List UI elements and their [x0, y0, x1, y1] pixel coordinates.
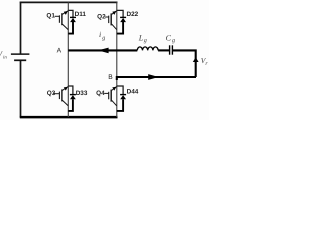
- wire top rail: [20, 1, 118, 3]
- wire inductor to capacitor: [158, 49, 169, 51]
- svg-text:Q1: Q1: [46, 13, 55, 20]
- label Q3: [47, 90, 56, 97]
- label Q2: [97, 13, 106, 20]
- current arrow ig (pointing left): [98, 48, 109, 54]
- svg-text:g: g: [144, 38, 147, 44]
- node A: [57, 47, 62, 54]
- svg-text:Q2: Q2: [97, 13, 106, 20]
- label Cg: [166, 33, 175, 44]
- wire Q2 diode branch tie top: [117, 10, 123, 17]
- inductor Lg: [137, 47, 158, 51]
- wire Q3 diode branch tie top: [68, 86, 73, 94]
- diode D33: [70, 95, 76, 100]
- label Vin: [0, 49, 7, 61]
- label ig: [99, 30, 105, 42]
- svg-text:Q4: Q4: [96, 90, 105, 97]
- wire right bridge leg: [116, 2, 118, 117]
- label D11: [75, 11, 87, 18]
- wire left rail lower: [20, 60, 22, 117]
- svg-text:D22: D22: [127, 11, 139, 18]
- label D22: [127, 11, 139, 18]
- label D44: [127, 89, 139, 96]
- wire Q1 diode branch tie top: [68, 10, 73, 17]
- svg-text:D44: D44: [127, 89, 139, 96]
- wire Q2 diode branch tie bottom: [117, 22, 123, 34]
- svg-text:g: g: [102, 36, 105, 42]
- diode D11: [70, 17, 76, 22]
- svg-text:g: g: [172, 38, 175, 44]
- current arrow on B wire (pointing right): [148, 74, 158, 80]
- transistor Q3 (IGBT): [53, 87, 68, 106]
- capacitor Cg: [170, 45, 173, 54]
- svg-text:r: r: [205, 61, 208, 67]
- wire Q4 diode branch tie bottom: [117, 99, 123, 111]
- node B: [108, 74, 113, 81]
- wire Q3 diode branch tie bottom: [68, 99, 73, 111]
- wire node A output segment: [68, 49, 137, 51]
- transistor Q1 (IGBT): [55, 11, 69, 30]
- svg-text:in: in: [3, 55, 7, 61]
- transistor Q4 (IGBT): [104, 87, 116, 106]
- wire capacitor to right corner: [173, 50, 196, 77]
- label Vr: [201, 56, 209, 67]
- label Q4: [96, 90, 105, 97]
- svg-text:C: C: [166, 33, 172, 42]
- diode D44: [120, 95, 126, 100]
- svg-text:D33: D33: [76, 90, 88, 97]
- svg-text:Q3: Q3: [47, 90, 56, 97]
- diode D22: [120, 17, 126, 22]
- svg-text:D11: D11: [75, 11, 87, 18]
- label Lg: [138, 34, 147, 44]
- svg-text:B: B: [108, 74, 113, 81]
- wire left rail upper: [20, 2, 22, 54]
- wire node B output segment: [117, 77, 196, 80]
- svg-text:i: i: [99, 30, 101, 39]
- voltage arrow Vr (pointing up on right branch): [193, 57, 199, 62]
- svg-text:A: A: [57, 47, 62, 54]
- wire Q4 diode branch tie top: [117, 86, 123, 94]
- label D33: [76, 90, 88, 97]
- label Q1: [46, 13, 55, 20]
- battery source Vin long plate: [11, 53, 30, 55]
- wire bottom rail: [20, 116, 118, 119]
- transistor Q2 (IGBT): [105, 11, 117, 30]
- wire left bridge leg: [67, 2, 69, 117]
- wire Q1 diode branch tie bottom: [68, 22, 73, 34]
- battery source Vin short plate: [14, 59, 26, 61]
